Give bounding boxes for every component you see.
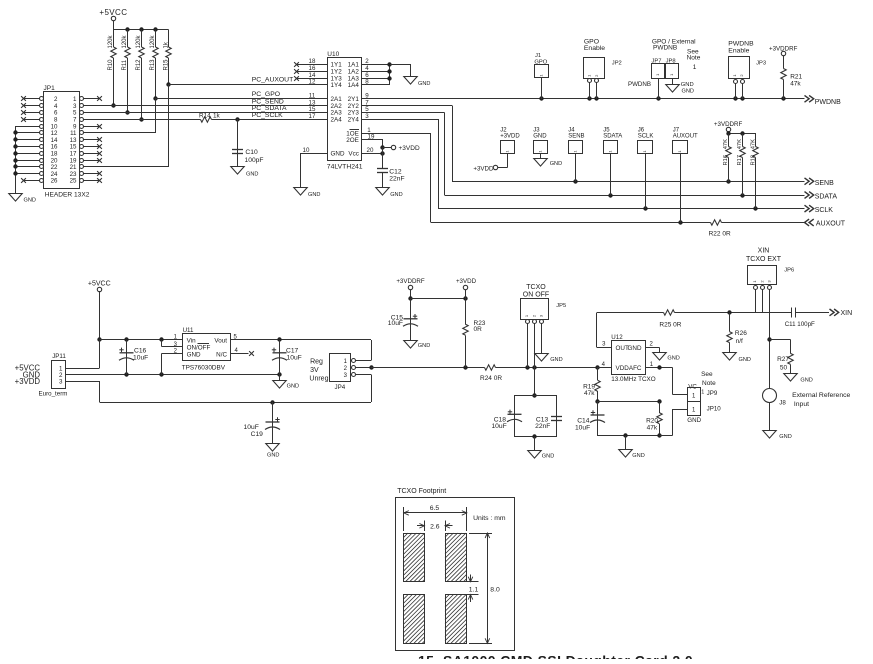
wire JP5 pin1	[527, 324, 529, 368]
ground (C15)	[404, 341, 430, 349]
svg-text:Enable: Enable	[584, 45, 605, 52]
svg-text:SENB: SENB	[568, 134, 584, 140]
dimension 8.0 (pad column height)	[469, 533, 500, 644]
capacitor C15 10uF	[388, 299, 418, 340]
resistor R22 0R (inline AUXOUT)	[709, 220, 731, 238]
ground (C18/C13)	[528, 451, 554, 460]
wire +5VCC pull-up rail	[113, 27, 168, 31]
svg-text:10uF: 10uF	[133, 355, 148, 362]
svg-text:1A4: 1A4	[348, 82, 360, 89]
svg-text:120k: 120k	[122, 34, 128, 48]
svg-text:100pF: 100pF	[245, 157, 264, 164]
jumper JP5 TCXO ON OFF	[521, 284, 567, 324]
svg-text:8.0: 8.0	[490, 586, 500, 593]
svg-text:J8: J8	[779, 400, 786, 407]
svg-text:10uF: 10uF	[287, 355, 302, 362]
svg-text:R14: R14	[199, 112, 211, 119]
connector J2 +3VDD	[498, 128, 520, 168]
svg-text:R17: R17	[737, 155, 743, 166]
svg-text:GND: GND	[681, 82, 694, 88]
label Units : mm	[473, 515, 506, 522]
label TCXO Footprint	[397, 488, 446, 495]
svg-text:R12: R12	[136, 59, 142, 71]
svg-text:JP3: JP3	[756, 60, 766, 66]
svg-text:10uF: 10uF	[388, 320, 403, 327]
jumper JP6 TCXO EXT	[746, 248, 794, 290]
wire U10 2OE to +3VDD	[362, 140, 392, 150]
wire U11 ON/OFF	[162, 340, 183, 347]
node SDATA output arrow	[805, 192, 838, 201]
resistor R17 47K	[737, 134, 745, 195]
svg-text:Enable: Enable	[728, 47, 749, 54]
ground (C12)	[376, 188, 403, 199]
svg-text:C14: C14	[577, 417, 590, 424]
wire JP6 pin3 to J8	[767, 289, 771, 388]
label See Note (JP9)	[701, 371, 716, 387]
jumper JP8	[666, 59, 679, 85]
resistor R26 n/f	[727, 312, 747, 353]
ground (JP1)	[9, 194, 36, 204]
svg-text:R15: R15	[163, 59, 169, 71]
wire U10 1A1-1A4 to GND	[362, 62, 411, 85]
wire PC_SDATA (JP1 pin5 to U10 2A3)	[84, 112, 328, 114]
capacitor C10 100pF	[232, 119, 263, 166]
svg-text:GND: GND	[331, 151, 345, 158]
connector J7 AUXOUT	[673, 128, 699, 223]
label PC_SEND	[252, 98, 284, 105]
svg-text:JP9: JP9	[707, 390, 718, 397]
svg-text:GND: GND	[308, 192, 320, 198]
JP1 left no-connect pins 2,4,6,8,26	[21, 96, 39, 183]
svg-text:120k: 120k	[136, 34, 142, 48]
label PC_AUXOUT	[252, 77, 294, 84]
svg-text:SCLK: SCLK	[815, 207, 834, 214]
svg-text:PWDNB: PWDNB	[815, 99, 841, 106]
node XIN output arrow	[830, 309, 853, 317]
svg-text:6.5: 6.5	[430, 505, 440, 512]
svg-text:n/f: n/f	[736, 338, 743, 345]
caption (clipped at page bottom)	[418, 653, 693, 664]
svg-text:Units : mm: Units : mm	[473, 515, 506, 522]
connector J3 GND	[533, 128, 547, 159]
label PC_SDATA	[252, 105, 287, 112]
svg-text:C16: C16	[134, 347, 147, 354]
svg-text:+3VDD: +3VDD	[500, 134, 520, 140]
resistor R13 120k	[150, 29, 158, 100]
svg-text:XIN: XIN	[758, 248, 770, 255]
connector JP11 Euro_term	[15, 353, 68, 397]
resistor R27 50	[770, 340, 794, 374]
ground (J3)	[534, 159, 562, 168]
wire Vin rail	[99, 337, 182, 341]
label GPO / External PWDNB	[652, 38, 696, 51]
svg-text:SDATA: SDATA	[603, 134, 622, 140]
svg-text:R10: R10	[108, 59, 114, 71]
svg-text:GND: GND	[187, 352, 201, 359]
power +5VCC (regulator)	[88, 280, 111, 341]
svg-text:GND: GND	[287, 383, 299, 389]
wire JP11 pin1 +5VCC	[66, 340, 100, 369]
svg-text:PWDNB: PWDNB	[728, 40, 754, 47]
ground (C19)	[266, 444, 280, 459]
wire PC_SCLK (JP1 pin7 to U10 2A4)	[84, 117, 328, 121]
svg-text:+3VDD: +3VDD	[456, 278, 477, 285]
svg-text:22nF: 22nF	[535, 423, 550, 430]
svg-text:Note: Note	[687, 55, 701, 62]
svg-text:R13: R13	[150, 59, 156, 71]
footprint pad top-left	[404, 533, 425, 582]
capacitor C16 10uF	[119, 340, 148, 375]
svg-text:Input: Input	[794, 401, 809, 408]
label See Note 1 (JP7/JP8)	[687, 49, 701, 71]
ground (R27)	[784, 374, 813, 384]
svg-text:R22 0R: R22 0R	[709, 230, 731, 237]
jumper JP4 Reg/Unreg	[309, 354, 355, 392]
wire PC_AUXOUT (JP1 pin21 via R15 to U10 1Y4)	[84, 85, 328, 167]
svg-text:PC_AUXOUT: PC_AUXOUT	[252, 77, 294, 84]
svg-text:VDD: VDD	[616, 365, 630, 372]
svg-text:Unreg: Unreg	[309, 375, 328, 382]
svg-text:JP11: JP11	[52, 353, 66, 360]
svg-text:JP1: JP1	[44, 85, 56, 92]
svg-text:50: 50	[780, 365, 788, 372]
wire AFC mid rail	[597, 399, 662, 403]
svg-text:C11 100pF: C11 100pF	[785, 321, 815, 328]
svg-text:GND: GND	[418, 81, 430, 87]
svg-text:GND: GND	[246, 171, 258, 177]
svg-text:GND: GND	[550, 357, 562, 363]
svg-text:47k: 47k	[584, 390, 595, 397]
wire +3VDD out (JP4 pin2)	[355, 365, 611, 369]
svg-text:TPS76030DBV: TPS76030DBV	[182, 364, 226, 371]
svg-text:47k: 47k	[790, 80, 801, 87]
svg-text:GND: GND	[390, 192, 402, 198]
wire AUXOUT bus (U10 1OE to arrow)	[362, 133, 805, 225]
svg-text:SCLK: SCLK	[638, 134, 654, 140]
resistor R25 0R (inline XIN)	[659, 310, 681, 329]
svg-text:2A4: 2A4	[331, 117, 343, 124]
wire U10 Vcc pin 20	[362, 148, 385, 169]
capacitor C17 10uF	[272, 340, 302, 375]
ground (JP5)	[535, 354, 563, 364]
wire Vout (U11 pin5 to JP4 pin1)	[231, 337, 372, 360]
capacitor C11 100pF	[785, 307, 829, 328]
svg-text:12: 12	[309, 79, 316, 86]
svg-text:C19: C19	[251, 431, 264, 438]
ground (JP8)	[666, 82, 694, 94]
svg-text:JP5: JP5	[556, 303, 566, 309]
resistor R23 0R	[463, 320, 486, 367]
svg-text:GND: GND	[667, 356, 679, 362]
svg-text:SENB: SENB	[815, 180, 834, 187]
label PC_SCLK	[252, 112, 283, 119]
resistor R18 47K	[751, 134, 759, 209]
svg-text:Vcc: Vcc	[348, 151, 359, 158]
svg-text:10uF: 10uF	[575, 424, 590, 431]
svg-text:25: 25	[70, 178, 77, 185]
svg-text:Note: Note	[702, 380, 716, 387]
wire U12 GND pin2	[646, 347, 660, 353]
svg-text:JP4: JP4	[335, 384, 346, 391]
connector J5 SDATA	[603, 128, 622, 195]
svg-text:GND: GND	[687, 417, 701, 424]
svg-text:0R: 0R	[474, 326, 483, 333]
svg-text:2.6: 2.6	[430, 524, 440, 531]
svg-text:3V: 3V	[310, 367, 319, 374]
svg-text:GND: GND	[779, 434, 791, 440]
svg-text:26: 26	[51, 178, 58, 185]
wire C18/C13 top	[514, 395, 556, 437]
U10 1Y1-1Y3 no-connect pins	[294, 62, 327, 81]
svg-text:PC_SCLK: PC_SCLK	[252, 112, 283, 119]
capacitor C12 22nF	[377, 168, 405, 188]
wire SDATA bus (U10 2Y3 to arrow)	[362, 112, 805, 197]
svg-text:Vin: Vin	[187, 337, 196, 344]
svg-text:GND: GND	[628, 345, 642, 352]
svg-text:74LVTH241: 74LVTH241	[327, 163, 363, 170]
svg-text:Euro_term: Euro_term	[39, 390, 68, 397]
svg-text:+5VCC: +5VCC	[88, 280, 111, 287]
svg-text:+3VDDRF: +3VDDRF	[396, 278, 425, 285]
svg-text:GND: GND	[267, 453, 279, 459]
power +5VCC (top)	[99, 8, 127, 29]
svg-text:J1: J1	[535, 53, 541, 59]
wire C14/R20 GND rail	[597, 409, 687, 450]
svg-text:JP2: JP2	[612, 61, 622, 67]
wire U12 VDD pin4	[597, 367, 611, 369]
svg-text:R16: R16	[723, 155, 729, 166]
dimension 6.5 (pad row width)	[404, 505, 467, 531]
svg-text:GND: GND	[542, 453, 554, 459]
wire +3VDDRF to +3VDD	[411, 296, 468, 300]
label PC_GPO	[252, 91, 280, 98]
wire SCLK bus (U10 2Y4 to arrow)	[362, 119, 805, 211]
capacitor C18 10uF	[491, 410, 522, 431]
svg-text:JP10: JP10	[707, 406, 722, 413]
resistor R14 1k (inline PC_SCLK)	[199, 112, 221, 122]
power +3VDD (R23)	[456, 278, 477, 324]
svg-text:See: See	[701, 371, 713, 378]
svg-text:1: 1	[693, 64, 697, 71]
jumper JP9	[688, 384, 718, 402]
svg-text:N/C: N/C	[216, 352, 227, 359]
capacitor C13 22nF	[535, 416, 562, 430]
ground (C14/R20)	[619, 450, 645, 460]
svg-text:17: 17	[309, 113, 316, 120]
svg-text:10uF: 10uF	[244, 424, 259, 431]
resistor R12 120k	[136, 29, 144, 121]
oscillator U12 13.0MHz TCXO	[602, 334, 656, 383]
svg-text:GND: GND	[800, 378, 812, 384]
jumper JP7	[652, 59, 665, 99]
wire SENB bus (U10 2Y2 to arrow)	[362, 106, 805, 184]
dimension 2.6 (pad gap)	[417, 521, 452, 532]
svg-text:TCXO Footprint: TCXO Footprint	[397, 488, 446, 495]
svg-text:1k: 1k	[163, 41, 169, 48]
svg-text:13.0MHz TCXO: 13.0MHz TCXO	[611, 376, 655, 383]
svg-text:PWDNB: PWDNB	[653, 45, 677, 52]
footprint pad bottom-right	[445, 595, 467, 644]
svg-text:R27: R27	[777, 356, 789, 363]
svg-text:GND: GND	[550, 161, 562, 167]
svg-text:120k: 120k	[108, 34, 114, 48]
svg-text:GND: GND	[682, 88, 694, 94]
ground (U10 1A inputs)	[404, 77, 431, 88]
connector J8 External Reference Input	[763, 389, 851, 431]
svg-text:1.1: 1.1	[469, 586, 479, 593]
power +3VDDRF (R21)	[769, 46, 798, 69]
svg-text:PWDNB: PWDNB	[628, 81, 651, 88]
jumper JP2 GPO Enable	[584, 38, 622, 98]
svg-text:47K: 47K	[737, 139, 743, 149]
resistor R10 120k	[108, 29, 116, 107]
svg-text:GND: GND	[533, 134, 547, 140]
connector J4 SENB	[568, 128, 584, 182]
svg-text:GND: GND	[418, 343, 430, 349]
svg-text:+3VDD: +3VDD	[15, 377, 41, 386]
wire C18/C13 bottom	[514, 434, 556, 450]
svg-text:Reg: Reg	[310, 358, 323, 365]
power +3VDD (J2)	[473, 165, 497, 172]
resistor R20 47k	[646, 402, 662, 436]
wire U12 OUT to XIN (R25 net)	[597, 310, 792, 347]
svg-text:C12: C12	[389, 168, 402, 175]
ground (U10 pin10)	[294, 188, 321, 199]
node SENB output arrow	[805, 178, 835, 187]
wire JP6 pin2	[762, 289, 764, 312]
wire JP6 pin1	[755, 289, 757, 312]
svg-text:20: 20	[367, 147, 374, 154]
svg-text:SDATA: SDATA	[815, 194, 838, 201]
label PWDNB (JP7 net)	[628, 81, 651, 88]
footprint pad bottom-left	[404, 595, 425, 644]
svg-text:GND: GND	[24, 198, 36, 204]
connector JP1 HEADER 13X2	[40, 85, 90, 199]
dimension 1.1 (pad vertical gap)	[467, 575, 479, 602]
node SCLK output arrow	[805, 205, 834, 214]
svg-text:R26: R26	[735, 330, 747, 337]
wire GND bus	[66, 372, 282, 376]
ground (U12)	[653, 353, 680, 362]
wire JP5 pin3 to GND	[541, 324, 543, 354]
resistor R15 1k	[163, 29, 171, 86]
jumper JP3 PWDNB Enable	[728, 40, 766, 99]
resistor R19 47k	[583, 368, 600, 404]
power +3VDDRF (C15)	[396, 278, 425, 301]
footprint pad top-right	[445, 533, 467, 582]
resistor R16 47K	[723, 134, 731, 182]
footprint outline box	[396, 498, 515, 651]
wire U12 AFC pin1	[646, 365, 688, 394]
wire +3VDDRF rail	[726, 131, 756, 135]
svg-text:U10: U10	[327, 51, 339, 58]
svg-text:2OE: 2OE	[346, 137, 359, 144]
capacitor C19 10uF	[244, 402, 280, 443]
svg-text:R24 0R: R24 0R	[480, 375, 502, 382]
svg-text:AUXOUT: AUXOUT	[816, 221, 846, 228]
svg-text:1: 1	[701, 389, 704, 395]
wire PWDNB bus (U10 2Y1 to arrow)	[362, 96, 805, 100]
svg-text:120k: 120k	[150, 34, 156, 48]
op-amp U10 74LVTH241 buffer	[303, 51, 375, 170]
wire PC_SEND (JP1 pin3 to U10 2A2)	[84, 105, 328, 107]
svg-text:HEADER 13X2: HEADER 13X2	[45, 192, 90, 199]
ground (R26)	[723, 353, 751, 364]
svg-text:TCXO: TCXO	[526, 284, 546, 291]
JP1 right no-connect pins 1,9,13,15,17,19,23,25	[84, 96, 102, 183]
wire JP5 pin2 (to caps)	[532, 324, 536, 398]
ground (J8)	[763, 431, 792, 441]
svg-text:+3VDD: +3VDD	[399, 145, 420, 152]
svg-text:C17: C17	[286, 347, 299, 354]
ground (C10)	[231, 167, 259, 178]
connector J6 SCLK	[638, 128, 654, 209]
jumper JP10	[687, 402, 721, 425]
capacitor C14 10uF	[575, 402, 605, 436]
svg-text:GND: GND	[739, 357, 751, 363]
svg-text:JP6: JP6	[784, 267, 794, 273]
svg-text:+5VCC: +5VCC	[99, 8, 127, 17]
svg-text:R11: R11	[122, 59, 128, 70]
svg-text:GND: GND	[632, 453, 644, 459]
power +3VDD (U10)	[391, 145, 420, 152]
svg-text:47k: 47k	[647, 424, 658, 431]
U11 N/C pin	[231, 351, 254, 356]
svg-text:AFC: AFC	[629, 365, 642, 372]
wire U11 GND pin2	[162, 353, 183, 374]
svg-text:Vout: Vout	[214, 337, 227, 344]
wire PC_GPO (JP1 pin11 via R13 to U10 2A1)	[84, 99, 328, 133]
svg-text:R20: R20	[646, 417, 658, 424]
regulator U11 TPS76030DBV	[174, 327, 239, 371]
svg-text:10uF: 10uF	[491, 423, 506, 430]
svg-text:47K: 47K	[751, 139, 757, 149]
resistor R11 120k	[122, 29, 130, 114]
connector J1 GPO	[534, 53, 548, 99]
svg-text:2Y4: 2Y4	[348, 117, 360, 124]
svg-text:15. SA1000 CMD SSI Daughter Ca: 15. SA1000 CMD SSI Daughter Card 2.0	[418, 653, 693, 660]
svg-text:ON OFF: ON OFF	[523, 291, 549, 298]
svg-text:XIN: XIN	[841, 310, 853, 317]
svg-text:R25 0R: R25 0R	[659, 322, 681, 329]
resistor R21 47k	[781, 69, 803, 99]
svg-text:3: 3	[59, 379, 63, 386]
wire JP1 ground rail (pins 10-24)	[13, 126, 39, 194]
resistor R24 0R (inline +3VDD rail)	[480, 365, 502, 382]
svg-text:10: 10	[303, 147, 310, 154]
svg-text:1Y4: 1Y4	[331, 82, 343, 89]
wire Unreg (JP4 pin3 to JP11 pin3)	[66, 374, 372, 404]
ground (C17)	[273, 375, 299, 390]
svg-text:C10: C10	[245, 149, 258, 156]
svg-text:+3VDD: +3VDD	[473, 165, 494, 172]
svg-text:External Reference: External Reference	[792, 392, 850, 399]
node AUXOUT input arrow	[805, 219, 846, 228]
wire U10 GND pin 10	[301, 153, 328, 187]
svg-text:R18: R18	[751, 155, 757, 166]
svg-text:TCXO EXT: TCXO EXT	[746, 256, 782, 263]
svg-text:22nF: 22nF	[389, 175, 404, 182]
power +3VDDRF (pull-ups)	[714, 121, 743, 134]
svg-text:47K: 47K	[723, 139, 729, 149]
node PWDNB output arrow	[805, 95, 842, 106]
svg-text:PC_GPO: PC_GPO	[252, 91, 280, 98]
svg-text:1k: 1k	[213, 112, 221, 119]
svg-text:AUXOUT: AUXOUT	[673, 134, 698, 140]
